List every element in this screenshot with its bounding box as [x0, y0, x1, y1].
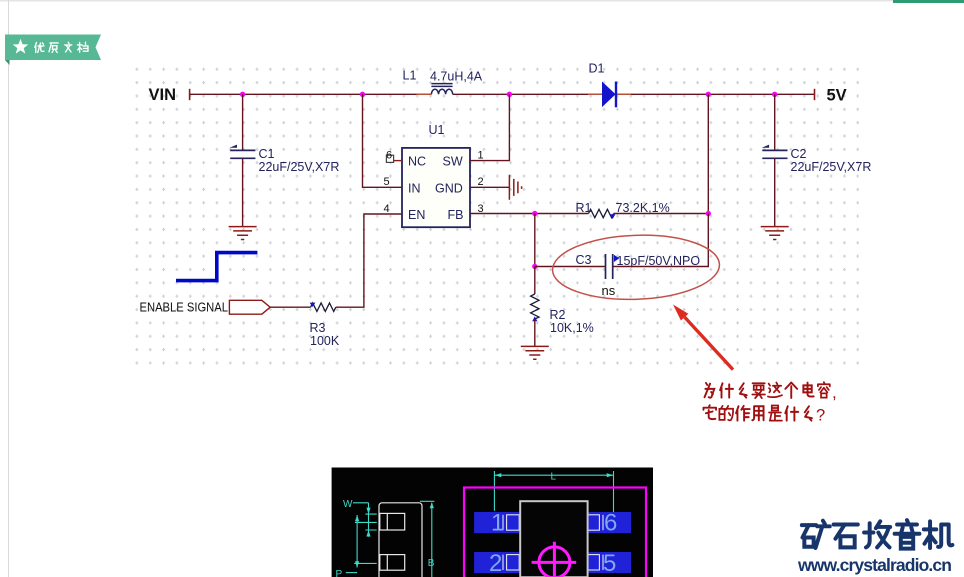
badge text 优质文档	[35, 42, 88, 52]
svg-text:ENABLE SIGNAL: ENABLE SIGNAL	[140, 300, 229, 315]
wire C3 right	[613, 214, 709, 267]
svg-text:W: W	[343, 499, 353, 510]
svg-text:R2: R2	[550, 308, 566, 322]
junction L1-D1-SW	[507, 92, 512, 97]
svg-text:NC: NC	[408, 155, 426, 169]
pad 1	[474, 512, 519, 533]
pad 6	[587, 512, 632, 533]
pin 6 stub + no-connect box	[394, 160, 402, 162]
svg-text:www.crystalradio.cn: www.crystalradio.cn	[797, 555, 952, 575]
junction VIN-IN	[360, 92, 365, 97]
svg-text:2: 2	[489, 550, 502, 577]
wire FB pin3 to R1	[470, 213, 589, 215]
svg-text:,: ,	[832, 383, 837, 402]
svg-text:?: ?	[816, 407, 825, 425]
capacitor C2	[762, 150, 787, 158]
svg-text:ns: ns	[602, 283, 616, 298]
diode D1	[602, 82, 616, 108]
resistor R2	[531, 294, 539, 319]
junction 5V-C2	[772, 92, 777, 97]
svg-text:IN: IN	[408, 181, 421, 195]
annotation line1 为什么要这个电容，	[705, 382, 837, 402]
pad shape outlines	[503, 515, 603, 570]
wire VIN down to IN pin5	[363, 94, 403, 187]
wire L1 left lead	[417, 93, 432, 95]
package body top view	[520, 501, 587, 577]
wire C1 top	[242, 94, 244, 150]
grid dots	[132, 62, 859, 368]
top-right green progress bar	[893, 0, 964, 3]
wire C1 bottom	[242, 158, 244, 226]
pcb black panel	[332, 468, 653, 577]
wire C3 left	[535, 266, 606, 268]
svg-text:2: 2	[478, 176, 484, 188]
wire FB node down to C3 node	[534, 214, 536, 267]
wire VIN rail to L1	[190, 93, 432, 95]
wire lead highlights near D1	[588, 93, 631, 95]
courtyard magenta rect	[464, 488, 646, 577]
junction C3 left	[532, 264, 537, 269]
origin crosshair	[532, 542, 577, 577]
svg-text:15pF/50V,NPO: 15pF/50V,NPO	[617, 254, 701, 268]
svg-text:C1: C1	[259, 147, 275, 161]
node 5V port tick	[814, 89, 816, 100]
wire C2 bottom	[774, 158, 776, 226]
svg-text:100K: 100K	[310, 334, 340, 348]
svg-text:FB: FB	[448, 208, 464, 222]
dimension arrowheads	[355, 473, 613, 567]
svg-text:VIN: VIN	[149, 86, 177, 104]
wire R2 to ground	[534, 319, 536, 346]
svg-text:R1: R1	[576, 201, 592, 215]
wire C3 node down to R2	[534, 267, 536, 295]
capacitor C1	[230, 150, 255, 158]
svg-text:5V: 5V	[827, 87, 847, 105]
port ENABLE pentagon	[229, 300, 270, 314]
annotation red arrow	[673, 305, 733, 370]
wire R1 to right node	[614, 213, 709, 215]
svg-text:GND: GND	[435, 181, 463, 195]
annotation line2 它的作用是什么？	[703, 405, 825, 424]
svg-text:4: 4	[384, 203, 390, 215]
left page border line	[8, 0, 9, 577]
op IC U1 body	[402, 148, 470, 227]
dimension W	[346, 471, 614, 577]
junction FB-R1	[532, 211, 537, 216]
junction VIN-C1	[240, 92, 245, 97]
svg-text:4.7uH,4A: 4.7uH,4A	[430, 70, 483, 84]
svg-text:P: P	[336, 569, 343, 577]
wire L1 right lead to D1	[453, 93, 602, 95]
svg-text:73.2K,1%: 73.2K,1%	[616, 201, 670, 215]
svg-text:U1: U1	[429, 123, 445, 137]
annotation red ellipse around C3	[551, 232, 720, 302]
svg-text:6: 6	[386, 150, 392, 162]
svg-text:SW: SW	[443, 155, 463, 169]
svg-text:C2: C2	[791, 147, 807, 161]
polarity mark C1	[230, 145, 238, 148]
svg-text:5: 5	[603, 550, 616, 577]
svg-text:1: 1	[478, 150, 484, 162]
resistor R1	[589, 209, 614, 217]
svg-text:22uF/25V,X7R: 22uF/25V,X7R	[791, 160, 872, 174]
resistor R3	[311, 303, 336, 311]
ground C1	[229, 227, 257, 240]
wire D1 node down to R1 node	[707, 94, 709, 213]
svg-text:C3: C3	[576, 253, 592, 267]
svg-text:R3: R3	[310, 321, 326, 335]
svg-text:L1: L1	[403, 69, 417, 83]
package side-view outline	[379, 503, 422, 577]
node VIN port tick	[189, 89, 191, 100]
svg-text:22uF/25V,X7R: 22uF/25V,X7R	[259, 160, 340, 174]
junction R1-out	[706, 211, 711, 216]
wire SW pin1 up to L1/D1 node	[470, 94, 509, 160]
wire port to R3	[270, 306, 310, 308]
wire C2 top	[774, 94, 776, 150]
page top hairline	[0, 0, 893, 2]
svg-text:L: L	[551, 472, 557, 483]
svg-text:D1: D1	[589, 62, 605, 76]
svg-text:6: 6	[604, 510, 617, 537]
badge ribbon 优质文档	[5, 35, 101, 66]
pad 2	[474, 552, 519, 573]
svg-text:5: 5	[384, 176, 390, 188]
svg-text:1: 1	[491, 510, 504, 537]
svg-text:B: B	[428, 558, 435, 569]
svg-text:10K,1%: 10K,1%	[550, 321, 594, 335]
ground R2	[521, 346, 549, 359]
waveform enable step	[176, 253, 257, 281]
junction D1-R1	[706, 92, 711, 97]
ground (signal gnd at pin2)	[509, 175, 521, 200]
wire GND pin2	[470, 186, 509, 188]
wire R3 to EN pin4	[336, 214, 402, 307]
wire D1 cathode to 5V	[617, 93, 815, 95]
polarity mark C2	[762, 145, 770, 148]
capacitor C3	[606, 254, 613, 279]
ground C2	[761, 227, 789, 240]
pad 5	[587, 552, 632, 573]
svg-text:EN: EN	[408, 208, 425, 222]
watermark 矿石收音机	[802, 520, 953, 549]
inductor L1	[431, 84, 452, 95]
